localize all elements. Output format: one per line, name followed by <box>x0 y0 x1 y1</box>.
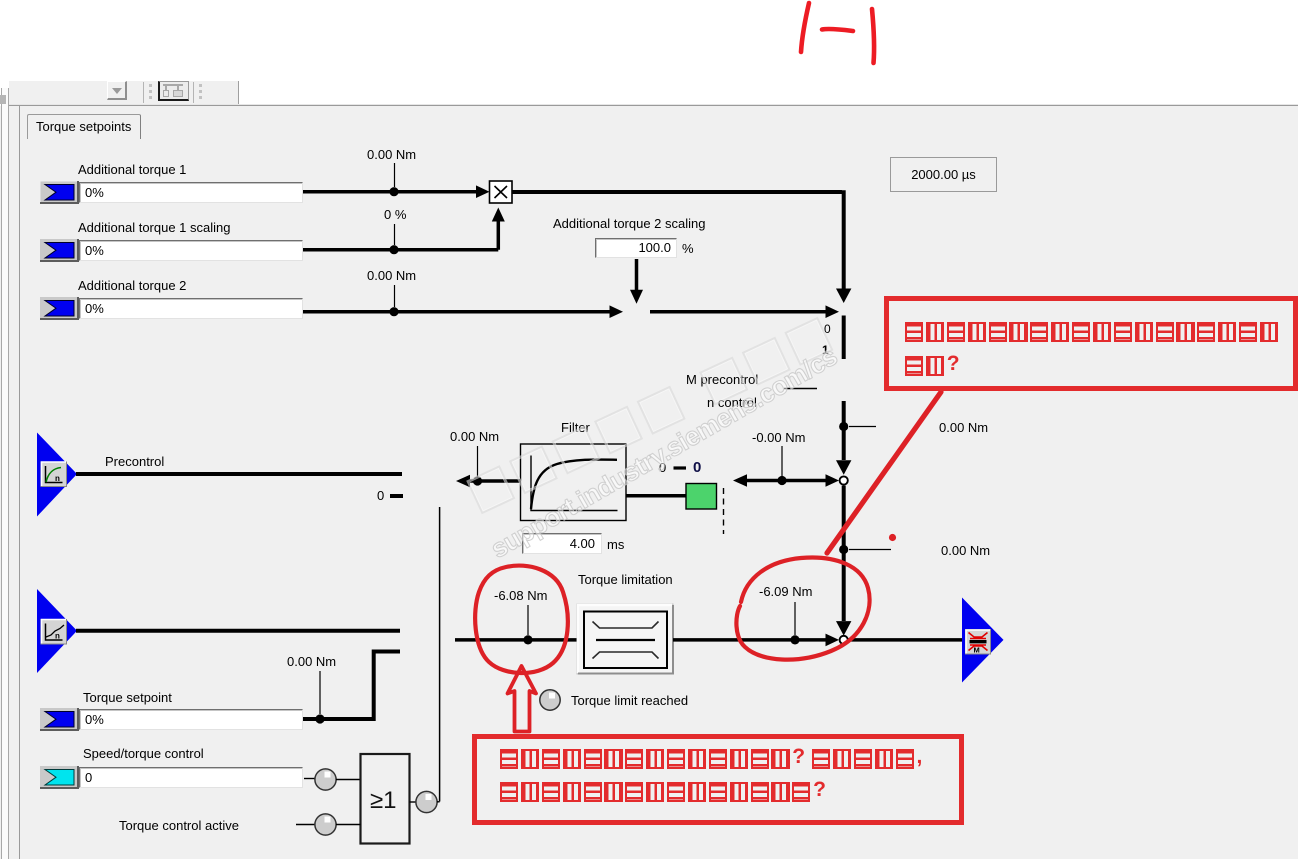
wire summing to trunk <box>650 305 839 318</box>
panel top border <box>9 105 1298 106</box>
label Torque limitation <box>578 573 673 586</box>
tab Torque setpoints <box>27 114 141 139</box>
arrow down from scaling field <box>630 259 643 304</box>
WATERMARK <box>466 303 862 514</box>
node trunk dot upper <box>839 422 848 431</box>
red diagonal pointer line <box>827 392 941 553</box>
connector ball OR input 1 <box>315 769 336 790</box>
wire filter output <box>626 494 686 498</box>
bico arrow B5 speed/torque control cyan <box>40 766 78 788</box>
value label 0.00 Nm row1 <box>367 148 416 161</box>
value label 0.00 Nm row3 <box>367 269 416 282</box>
wire output to M triangle <box>848 638 963 642</box>
dashed actuator line <box>723 488 725 534</box>
unit label % <box>682 242 694 255</box>
wire output ball to actuator line <box>437 801 440 803</box>
node trunk dot lower <box>839 545 848 554</box>
bico arrow B3 <box>40 297 78 319</box>
label Additional torque 2 scaling <box>553 217 706 230</box>
wire precontrol torque to min node <box>733 474 839 487</box>
binector input p1501 field <box>79 767 303 788</box>
toolbar strip <box>9 81 239 104</box>
node row3 dot <box>389 307 398 316</box>
label Torque setpoint <box>83 691 172 704</box>
wire row3 <box>303 305 623 318</box>
torque limitation block <box>577 604 673 674</box>
red hand arrow up <box>508 666 537 732</box>
time field 4.00 ms <box>522 533 602 554</box>
node open circle output <box>840 636 848 644</box>
sampling time box 2000.00 us <box>890 157 997 192</box>
toolbar separator right edge <box>238 81 239 104</box>
connector input p1512 field <box>79 240 303 261</box>
switch position label 0 <box>824 323 831 336</box>
handwriting stroke dash <box>822 29 853 31</box>
label Additional torque 1 scaling <box>78 221 231 234</box>
node mid dot <box>777 476 786 485</box>
red circle around -6.08 <box>475 566 568 673</box>
panel left border <box>19 106 20 859</box>
tick torque setpoint value <box>319 671 321 714</box>
node row2 dot <box>389 245 398 254</box>
trunk segment lower <box>842 486 846 622</box>
red dot <box>889 534 896 541</box>
label Speed/torque control <box>83 747 204 760</box>
label M precontrol <box>686 373 758 386</box>
wire precontrol <box>76 472 402 476</box>
label Torque limit reached <box>571 694 688 707</box>
label Additional torque 2 <box>78 279 186 292</box>
connector input p1513 field <box>79 298 303 319</box>
arrow down into output node <box>836 621 851 636</box>
red note text line2 right <box>905 356 960 376</box>
OR gate box <box>361 754 410 844</box>
tick -6.08 value <box>527 605 529 635</box>
red note text line1 bottom <box>500 749 922 769</box>
wire limitation row left <box>455 638 577 642</box>
handwriting stroke slash <box>801 3 809 52</box>
red note text line2 bottom <box>500 782 826 802</box>
wire multiplier output to trunk elbow <box>512 190 844 289</box>
bold value 0 at switch <box>693 461 701 474</box>
tick -6.09 value <box>794 602 796 635</box>
label Precontrol <box>105 455 164 468</box>
label n control <box>707 396 757 409</box>
output triangle torque M <box>962 598 1004 683</box>
value label 0 % row2 <box>384 208 406 221</box>
arrow down into summing point <box>836 289 851 304</box>
node torque setpoint dot <box>315 714 324 723</box>
input triangle torque setpoint <box>37 589 77 673</box>
toolbar separator 2 <box>193 82 194 103</box>
wire limitation row right <box>673 634 839 647</box>
tick mid value <box>781 446 783 477</box>
value label -6.08 Nm <box>494 589 547 602</box>
wire speed field to ball <box>304 778 315 780</box>
wire precontrol to filter <box>456 475 521 488</box>
node -6.08 dot <box>523 635 532 644</box>
binector value 0 before filter end <box>377 489 384 502</box>
trunk segment below switch <box>842 401 846 460</box>
tick trunk upper value <box>849 426 876 428</box>
toolbar dropdown button <box>107 81 127 100</box>
switch actuator vertical line <box>439 507 441 802</box>
red annotation box bottom <box>472 734 964 825</box>
wire gate to output ball <box>410 801 417 803</box>
bico arrow B1 <box>40 181 78 203</box>
switch indicator line <box>784 388 817 390</box>
wire torque control active to ball <box>296 824 315 826</box>
connector input p1503 field <box>79 709 303 730</box>
handwriting stroke bar <box>872 9 874 63</box>
wire row1 <box>303 185 490 198</box>
parameter field 100.0 % <box>595 238 677 258</box>
red note text line1 right <box>905 322 1281 342</box>
wire ball2 to gate <box>336 824 361 826</box>
LED torque limit reached <box>540 690 560 710</box>
input triangle precontrol <box>37 433 77 517</box>
toolbar grip dots 1 <box>149 84 152 87</box>
value label -0.00 Nm <box>752 431 805 444</box>
label Filter <box>561 421 590 434</box>
wire torque setpoint field elbow <box>303 650 400 722</box>
value label -6.09 Nm <box>759 585 812 598</box>
value label 0.00 Nm torque setpoint <box>287 655 336 668</box>
wire torque setpoint main <box>76 629 400 633</box>
tick precontrol value <box>477 446 479 477</box>
tick trunk lower value <box>849 549 891 551</box>
left splitter strip <box>2 88 8 859</box>
tick row3 value <box>394 285 396 307</box>
binector value 0 after filter <box>659 461 666 474</box>
red circle around -6.09 <box>736 558 869 660</box>
value label 0.00 Nm upper right <box>939 421 988 434</box>
status box green <box>686 484 717 510</box>
node precontrol dot <box>473 476 482 485</box>
bico arrow B4 torque setpoint <box>40 708 78 730</box>
binector dash after filter <box>674 466 687 469</box>
filter block <box>521 444 627 521</box>
node row1 dot <box>389 187 398 196</box>
node -6.09 dot <box>790 635 799 644</box>
arrow down into minimum node <box>836 460 851 475</box>
tick row2 value <box>394 224 396 245</box>
binector end dash precontrol <box>390 494 403 498</box>
label Additional torque 1 <box>78 163 186 176</box>
multiplier X box <box>490 181 513 203</box>
unit label ms <box>607 538 624 551</box>
toolbar pressed icon button <box>158 81 189 101</box>
trunk switch segment <box>842 316 846 360</box>
value label 0.00 Nm mid right <box>941 544 990 557</box>
label Torque control active <box>119 819 239 832</box>
switch position label 1 <box>822 344 829 357</box>
value label 0.00 Nm precontrol <box>450 430 499 443</box>
red annotation box right <box>884 296 1298 391</box>
wire row2 <box>303 208 505 250</box>
node open circle upper <box>840 476 848 484</box>
bico arrow B2 <box>40 239 78 261</box>
connector ball OR input 2 <box>315 814 336 835</box>
toolbar separator 1 <box>143 82 144 103</box>
toolbar grip dots 2 <box>199 84 202 87</box>
wire ball1 to gate <box>336 779 361 781</box>
tick row1 value <box>394 163 396 187</box>
connector ball OR output <box>416 791 437 812</box>
connector input p1511 field <box>79 182 303 203</box>
